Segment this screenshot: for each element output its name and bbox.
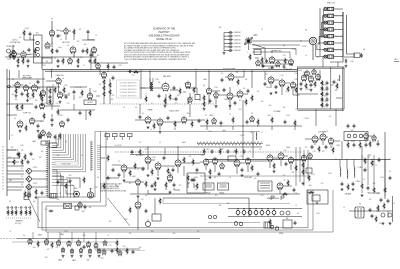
- resistor R93: [20, 209, 22, 216]
- resistor R14: [40, 91, 42, 98]
- svg-text:680: 680: [59, 35, 62, 37]
- svg-text:TERM STRIP: TERM STRIP: [61, 163, 70, 165]
- right rail bottom: [392, 196, 394, 222]
- bus B+ upper: [42, 68, 298, 70]
- tube V19B: [214, 91, 219, 98]
- svg-text:220: 220: [323, 90, 326, 92]
- resistor R122: [359, 141, 361, 148]
- svg-text:680: 680: [57, 199, 60, 201]
- svg-text:.005: .005: [215, 195, 218, 197]
- box bfo xtal: [195, 95, 200, 100]
- tube V50: [28, 238, 32, 245]
- bottom bus dark: [17, 238, 200, 240]
- resistor R58: [321, 102, 323, 108]
- resistor R77: [281, 193, 288, 195]
- svg-text:470K: 470K: [214, 87, 217, 89]
- svg-text:33K: 33K: [29, 98, 32, 100]
- svg-text:.01: .01: [195, 173, 197, 175]
- svg-text:47K: 47K: [97, 55, 100, 57]
- svg-text:680: 680: [269, 105, 272, 107]
- resistor R92: [15, 209, 17, 216]
- resistor R126: [165, 181, 167, 188]
- junction: [165, 103, 166, 104]
- svg-text:2.2K: 2.2K: [281, 75, 284, 77]
- resistor R99: [116, 246, 118, 253]
- transistor Q3: [25, 185, 31, 190]
- resistor R15: [41, 95, 43, 102]
- tube V41: [288, 156, 293, 164]
- tube V29A: [41, 129, 46, 136]
- resistor R102: [159, 197, 161, 204]
- resistor R33: [193, 86, 195, 93]
- resistor R95: [29, 209, 31, 216]
- box conn 5: [50, 194, 57, 199]
- svg-text:S2: S2: [305, 30, 307, 32]
- svg-text:.01: .01: [11, 135, 13, 137]
- tube V71: [118, 250, 122, 257]
- tube V3: [91, 46, 96, 54]
- capacitor C20: [112, 76, 115, 80]
- capacitor C18: [51, 118, 54, 122]
- tube V48: [78, 201, 82, 208]
- wires cath foll: [46, 70, 70, 95]
- junction: [99, 69, 100, 70]
- heater lamp 5: [260, 208, 264, 216]
- resistor R65: [65, 182, 67, 189]
- connector ticks: [46, 141, 48, 196]
- box xtal Y11: [254, 50, 261, 55]
- svg-text:.01: .01: [40, 121, 42, 123]
- heater lamp 4: [254, 208, 258, 216]
- S1 input wire 4: [224, 42, 229, 44]
- capacitor C9: [360, 53, 363, 57]
- svg-text:5.0-5.5 MC: 5.0-5.5 MC: [114, 145, 121, 147]
- tube V8B: [57, 91, 62, 99]
- rotary switch S2: [309, 37, 317, 45]
- S1 input wire 5: [224, 46, 229, 48]
- tube V17A: [181, 116, 186, 124]
- coil risers: [340, 159, 354, 169]
- box strip top: [49, 143, 57, 147]
- svg-text:470K: 470K: [311, 174, 315, 176]
- trunk v243 upper: [207, 100, 295, 130]
- svg-text:47K: 47K: [369, 199, 372, 201]
- svg-text:SWITCH S3 SHOWN IN FULL COUNTE: SWITCH S3 SHOWN IN FULL COUNTERCLOCKWISE…: [124, 52, 191, 54]
- capacitor C66: [311, 145, 314, 149]
- tube V1A: [49, 29, 54, 37]
- tube V26C: [312, 68, 316, 75]
- transistor Q2: [25, 177, 31, 182]
- resistor R75: [295, 164, 297, 171]
- svg-text:3.3950 MC: 3.3950 MC: [234, 39, 242, 41]
- svg-text:L7: L7: [261, 132, 263, 134]
- svg-text:470K: 470K: [118, 65, 122, 67]
- tube V72: [135, 201, 141, 210]
- tube V43: [312, 135, 318, 144]
- capacitor C92: [193, 178, 196, 182]
- tube V86: [21, 50, 26, 58]
- capacitor C106: [191, 178, 194, 182]
- capacitor C58: [163, 156, 166, 160]
- resistor R86: [384, 186, 386, 193]
- heater lamp 1: [236, 208, 240, 216]
- capacitor C44: [326, 97, 329, 101]
- capacitor C S1-4: [228, 42, 232, 45]
- wire inside cage: [317, 67, 331, 109]
- svg-text:150: 150: [21, 150, 24, 152]
- tube V9: [40, 89, 45, 97]
- svg-text:4.7K: 4.7K: [312, 151, 315, 153]
- svg-text:33K: 33K: [115, 185, 118, 187]
- wire S1 out: [249, 41, 303, 60]
- tube V42: [277, 182, 283, 191]
- svg-text:150: 150: [243, 88, 246, 90]
- svg-text:206: 206: [9, 180, 12, 182]
- tube V32: [155, 162, 161, 171]
- capacitor C90: [107, 176, 110, 180]
- junction: [73, 56, 74, 57]
- box xtal Y10: [306, 168, 312, 173]
- resistor R115: [369, 140, 371, 147]
- svg-text:680: 680: [11, 147, 14, 149]
- box lamp: [64, 204, 72, 209]
- wires carrier osc: [255, 58, 291, 66]
- tube V37: [234, 159, 240, 168]
- svg-text:47: 47: [151, 103, 153, 105]
- ground b0: [62, 255, 65, 258]
- resistor R12: [27, 91, 29, 98]
- wires alc: [365, 158, 385, 187]
- capacitor C49: [39, 135, 42, 139]
- tube V24: [290, 81, 295, 89]
- tube V35: [212, 157, 217, 165]
- svg-text:Q1: Q1: [21, 168, 23, 170]
- capacitor C102: [371, 214, 374, 218]
- svg-text:680: 680: [187, 113, 190, 115]
- svg-text:TONE OSC: TONE OSC: [23, 113, 32, 115]
- junction: [34, 56, 35, 57]
- svg-text:XTAL OSC: XTAL OSC: [327, 2, 336, 5]
- resistor R1: [34, 47, 36, 54]
- box conn small: [24, 196, 29, 200]
- svg-text:100K: 100K: [81, 211, 85, 213]
- svg-text:150: 150: [7, 59, 10, 61]
- svg-text:.01: .01: [368, 157, 370, 159]
- ground: [77, 65, 80, 68]
- capacitor C8: [89, 59, 92, 63]
- junction: [195, 69, 196, 70]
- box vibrator: [283, 220, 292, 228]
- jack mic in: [8, 85, 11, 88]
- resistor R35: [153, 122, 155, 129]
- resistor R97: [51, 241, 53, 248]
- svg-text:150: 150: [52, 85, 55, 87]
- ground: [241, 174, 244, 177]
- heater lamp 6: [266, 208, 270, 216]
- svg-text:2.2K: 2.2K: [67, 103, 70, 105]
- diode D1: [49, 210, 54, 212]
- svg-text:100K: 100K: [124, 219, 127, 221]
- resistor R39: [203, 94, 205, 101]
- resistor R7: [77, 57, 79, 64]
- svg-text:.01: .01: [229, 114, 231, 116]
- junction: [6, 103, 7, 104]
- resistor R90: [7, 209, 9, 216]
- svg-text:100 KC: 100 KC: [12, 40, 18, 42]
- capacitor C15: [73, 90, 76, 94]
- crystal rail thick: [342, 12, 344, 57]
- svg-text:.01: .01: [184, 83, 186, 85]
- capacitor C68: [341, 182, 344, 186]
- box terminal note: [55, 161, 78, 165]
- resistor R69: [167, 167, 169, 174]
- svg-text:680: 680: [69, 175, 72, 177]
- capacitor C35: [246, 120, 249, 124]
- box relay K0: [354, 53, 360, 58]
- resistor R54: [321, 80, 323, 86]
- svg-text:100K: 100K: [59, 115, 63, 117]
- tube V38: [245, 157, 250, 165]
- crystal bank rails: [343, 12, 347, 57]
- svg-text:10K: 10K: [39, 157, 42, 159]
- capacitor C34: [220, 121, 223, 125]
- tube V52: [56, 239, 60, 246]
- svg-text:6146: 6146: [380, 177, 384, 179]
- ground balmod: [164, 105, 167, 108]
- wires center top: [209, 71, 252, 110]
- tube V5B: [256, 59, 261, 66]
- box conn 4: [128, 134, 133, 137]
- filter cap can: [145, 219, 150, 226]
- bank bundle extra: [319, 8, 321, 56]
- svg-text:47K: 47K: [317, 57, 320, 59]
- tube V39: [267, 154, 273, 163]
- ground: [203, 108, 206, 111]
- bus B+ lower: [45, 70, 298, 72]
- left rail: [6, 69, 8, 196]
- box crystal oven: [344, 132, 368, 141]
- svg-text:100K: 100K: [308, 185, 311, 187]
- capacitor C101: [113, 65, 116, 69]
- resistor R9: [261, 56, 263, 63]
- svg-text:220: 220: [201, 155, 204, 157]
- tube V15: [145, 116, 151, 125]
- svg-text:.001: .001: [32, 159, 35, 161]
- svg-text:47K: 47K: [129, 233, 132, 235]
- conn lead 3: [121, 137, 123, 140]
- resistor R134: [235, 148, 237, 155]
- resistor R72: [209, 168, 211, 175]
- resistor R48: [271, 116, 273, 123]
- S1 input wire 2: [224, 35, 229, 37]
- wires cage: [298, 80, 343, 98]
- svg-text:33K: 33K: [111, 99, 114, 101]
- svg-text:100K: 100K: [376, 193, 379, 195]
- svg-text:47K: 47K: [112, 95, 115, 97]
- ground: [57, 65, 60, 68]
- svg-text:3.3950 MC: 3.3950 MC: [234, 32, 242, 34]
- junction: [208, 71, 209, 72]
- tube V29B: [47, 131, 51, 138]
- capacitor C3: [28, 48, 31, 52]
- resistor R31: [132, 71, 139, 73]
- resistor R81: [302, 168, 304, 175]
- svg-text:33K: 33K: [219, 27, 222, 29]
- resistor R59: [59, 132, 61, 139]
- svg-text:470K: 470K: [286, 115, 289, 117]
- svg-text:470K: 470K: [328, 173, 331, 175]
- nested box 1: [38, 190, 308, 228]
- capacitor C69: [352, 182, 355, 186]
- svg-text:33K: 33K: [283, 107, 286, 109]
- resistor R55: [321, 85, 323, 91]
- wires tl upper2: [60, 31, 74, 40]
- resistor R19: [63, 86, 65, 93]
- ground: [137, 195, 140, 198]
- tube V82: [372, 134, 376, 141]
- svg-text:100K: 100K: [20, 145, 23, 147]
- capacitor C60: [196, 168, 199, 172]
- svg-text:10K: 10K: [173, 233, 176, 235]
- tube V16: [157, 118, 163, 127]
- capacitor C133: [227, 149, 230, 153]
- resistor R68: [151, 168, 153, 175]
- capacitor C75: [132, 250, 135, 254]
- svg-text:33K: 33K: [236, 72, 239, 74]
- wires corner tubes: [10, 54, 30, 60]
- box osc can: [34, 35, 43, 63]
- resistor R30: [109, 88, 111, 95]
- inductor L6: [353, 167, 356, 178]
- vib circles: [270, 225, 278, 230]
- ground b1: [71, 255, 74, 258]
- tube V8A: [56, 77, 61, 85]
- resistor R83: [347, 183, 349, 190]
- tube V44: [320, 133, 326, 142]
- svg-text:V11: V11: [139, 142, 142, 144]
- capacitor C19b: [79, 111, 82, 115]
- svg-text:V1: V1: [51, 19, 53, 21]
- svg-text:470K: 470K: [70, 185, 74, 187]
- capacitor C100: [90, 53, 93, 57]
- capacitor C95: [367, 186, 370, 190]
- box conn 2: [113, 134, 118, 137]
- wires rb: [376, 211, 388, 218]
- capacitor C57: [142, 167, 145, 171]
- ground: [352, 188, 355, 191]
- capacitor C56: [112, 168, 115, 172]
- tube V10B: [17, 120, 23, 129]
- tube V40: [278, 152, 284, 161]
- trunk v243 lower: [243, 126, 253, 160]
- wires power conn: [280, 186, 292, 194]
- tube V28: [316, 73, 321, 81]
- svg-text:10K: 10K: [323, 96, 326, 98]
- svg-text:47: 47: [249, 151, 251, 153]
- ground b2: [80, 255, 83, 258]
- svg-text:.005: .005: [99, 84, 102, 86]
- wires J left: [101, 158, 120, 186]
- svg-text:OB2: OB2: [87, 260, 90, 262]
- resistor R16: [49, 87, 51, 94]
- crystal Y8: [324, 55, 343, 58]
- svg-text:100K: 100K: [58, 47, 62, 49]
- capacitor C53: [41, 191, 44, 195]
- transistor Q1: [25, 169, 31, 174]
- svg-text:T2: T2: [359, 204, 361, 206]
- ground: [26, 99, 29, 102]
- tube V5C: [276, 60, 280, 67]
- resistor R106: [375, 215, 377, 222]
- resistor R29: [109, 81, 111, 88]
- svg-text:47K: 47K: [19, 57, 22, 59]
- strip2 ticks: [91, 142, 93, 169]
- tube V53: [67, 240, 71, 247]
- rotary switch S1 starburst: [244, 37, 253, 45]
- svg-text:150: 150: [326, 131, 329, 133]
- capacitor C97: [13, 55, 16, 59]
- S1 input wire 6: [224, 50, 229, 52]
- inductor L3: [255, 132, 258, 139]
- tube V7A: [15, 81, 20, 89]
- svg-text:2N155: 2N155: [33, 167, 38, 169]
- svg-text:.01: .01: [83, 65, 85, 67]
- svg-text:.001: .001: [68, 93, 71, 95]
- tube V10A: [40, 102, 45, 110]
- svg-text:150: 150: [297, 213, 300, 215]
- capacitor C24: [139, 115, 142, 119]
- conn lead 4: [129, 137, 131, 140]
- svg-text:VOX: VOX: [208, 131, 211, 133]
- svg-text:MIXER: MIXER: [266, 145, 271, 147]
- dashed line mid: [100, 103, 215, 105]
- crystal Y5: [324, 35, 343, 38]
- transformer T2: [355, 207, 364, 218]
- resistor R98: [116, 239, 118, 246]
- crystal staircase wires: [316, 9, 325, 57]
- capacitor C52: [27, 160, 30, 164]
- svg-text:220: 220: [54, 58, 57, 60]
- fan wires up: [52, 134, 85, 172]
- svg-text:1K: 1K: [375, 165, 377, 167]
- svg-text:470K: 470K: [292, 49, 295, 51]
- ground: [209, 176, 212, 179]
- transistor wires: [7, 171, 48, 187]
- svg-text:2.2K: 2.2K: [59, 179, 62, 181]
- relay K2 contacts: [205, 185, 212, 187]
- box fuse: [75, 206, 79, 210]
- resistor R10: [284, 57, 286, 64]
- svg-text:220: 220: [56, 247, 59, 249]
- svg-text:47K: 47K: [46, 89, 49, 91]
- svg-text:100K: 100K: [267, 115, 271, 117]
- cage double edges: [298, 67, 345, 111]
- resistor R66: [129, 169, 131, 176]
- resistor R25: [57, 108, 59, 115]
- capacitor C S1-5: [228, 45, 232, 48]
- svg-text:.02: .02: [384, 195, 386, 197]
- resistor R128: [196, 182, 198, 189]
- capacitor C6: [27, 59, 30, 63]
- tube V14B: [188, 96, 192, 103]
- capacitor C70: [378, 158, 381, 162]
- svg-text:1K: 1K: [283, 180, 285, 182]
- capacitor C S1-2: [228, 35, 232, 38]
- ground: [27, 65, 30, 68]
- box note: [117, 80, 140, 98]
- resistor R64: [24, 190, 26, 197]
- svg-text:10K: 10K: [9, 201, 12, 203]
